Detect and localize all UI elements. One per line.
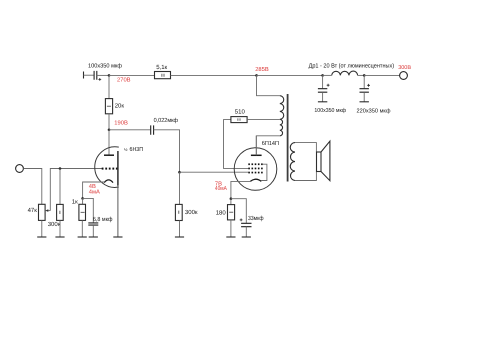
node 270V junction	[108, 74, 111, 77]
node grid V2 junction	[178, 171, 181, 174]
capacitor C5 bottom lead	[363, 92, 365, 102]
tube V2 cathode	[250, 179, 261, 181]
resistor R 510 body	[231, 117, 247, 123]
ground stub R300k-1	[55, 236, 64, 238]
svg-text:5,1к: 5,1к	[156, 64, 167, 71]
node V2 cathode junction	[230, 197, 233, 200]
capacitor C3 6,8мкф plates	[88, 223, 98, 225]
svg-text:300к: 300к	[185, 209, 198, 216]
resistor R 180 body	[228, 205, 235, 220]
ground stub pot	[37, 236, 46, 238]
svg-text:510: 510	[235, 109, 246, 116]
svg-text:100x350 мкф: 100x350 мкф	[88, 62, 122, 69]
speaker BA1 cone	[321, 141, 330, 181]
ground stub R300k-2	[175, 236, 184, 238]
wire R300k-2 to ground	[179, 221, 181, 238]
resistor R 20к body	[105, 99, 112, 114]
ground stub C3	[89, 236, 98, 238]
wire R510 to transformer tap	[247, 119, 280, 121]
svg-text:285В: 285В	[255, 66, 269, 73]
svg-text:33мкф: 33мкф	[248, 215, 264, 222]
svg-text:6,8 мкф: 6,8 мкф	[93, 216, 113, 223]
capacitor C5 bottom stub	[360, 101, 369, 103]
svg-text:20к: 20к	[115, 102, 125, 109]
wire 5.1k to node 285V	[171, 74, 257, 76]
resistor R 1к body	[79, 204, 86, 220]
capacitor C5 plus	[367, 84, 370, 87]
capacitor C6 plus	[240, 219, 243, 222]
capacitor C2 0,022мкф plates	[151, 125, 154, 134]
wire secondary top to speaker	[295, 143, 316, 152]
wire C2 to grid node V2	[154, 130, 180, 172]
tube V1 shield line	[117, 151, 119, 186]
svg-text:6П14П: 6П14П	[262, 140, 279, 147]
wire cathode node to C3	[83, 198, 94, 222]
svg-text:1к: 1к	[72, 198, 78, 205]
svg-text:270В: 270В	[117, 76, 131, 83]
capacitor C1 plus sign	[98, 78, 101, 81]
wire secondary bottom to speaker	[295, 172, 316, 181]
capacitor C4 100х350 lead	[322, 75, 324, 88]
node grid bus junction	[59, 167, 62, 170]
capacitor C4 bottom stub	[318, 101, 327, 103]
wire rail junction to choke	[323, 74, 332, 76]
svg-text:47к: 47к	[28, 207, 38, 214]
wire input to R 47k pot	[23, 169, 41, 205]
resistor R 300к-1 body	[57, 204, 64, 220]
svg-text:0,022мкф: 0,022мкф	[154, 117, 179, 124]
wire node 190V to tube V1 anode	[108, 130, 110, 155]
capacitor C5 220х350 lead	[363, 75, 365, 88]
wire C6 to ground	[245, 227, 247, 237]
wire R1k to ground	[81, 220, 83, 237]
tube V1 6Н3П envelope	[95, 147, 119, 188]
transformer T1 core	[287, 94, 289, 182]
potentiometer R 47к wiper arrow	[47, 210, 50, 212]
transformer T1 secondary winding	[290, 143, 295, 181]
tube V1 grid dots	[102, 168, 118, 170]
wire node270 down to R 20k	[108, 75, 110, 98]
wire stub to C1	[84, 74, 94, 76]
tube V2 grids dots	[248, 163, 262, 173]
svg-text:190В: 190В	[114, 119, 128, 126]
tube V2 anode bar	[251, 154, 262, 156]
wire C3 to ground	[92, 225, 94, 237]
wire 285V down to transformer primary top	[257, 75, 280, 95]
ground stub R180	[226, 236, 235, 238]
capacitor C1 100x350 plates	[94, 71, 97, 80]
svg-text:Др1 - 20 Вт (от люминесцентных: Др1 - 20 Вт (от люминесцентных)	[309, 63, 395, 70]
wire pot to ground	[41, 220, 43, 237]
wire screen grid to R 510	[224, 120, 249, 169]
tube V2 6П14П envelope	[234, 148, 277, 191]
wire 20k to node 190V	[108, 114, 110, 130]
node V1 cathode junction	[81, 197, 84, 200]
wire C1 to node 270V	[97, 74, 109, 76]
wire wiper riser to grid bus	[50, 169, 102, 211]
resistor R 300к-2 body	[175, 204, 182, 220]
output terminal 300V	[400, 72, 408, 80]
capacitor C6 33мкф plates	[241, 223, 251, 226]
wire node to R 180	[230, 199, 232, 205]
svg-text:180: 180	[216, 209, 227, 216]
svg-text:½: ½	[124, 147, 128, 152]
input power stub	[83, 72, 85, 79]
wire R180 to ground	[230, 220, 232, 237]
capacitor C4 plus	[327, 84, 330, 87]
wire rail node270 to R 5.1k	[109, 74, 155, 76]
node 285V junction	[255, 74, 258, 77]
wire C5 junction to output terminal	[364, 74, 399, 76]
capacitor C5 plates	[360, 89, 369, 93]
ground stub C6	[242, 236, 251, 238]
svg-text:300к: 300к	[48, 221, 61, 228]
svg-text:4мА: 4мА	[89, 190, 100, 196]
wire node 190V to C2	[109, 129, 150, 131]
svg-text:40мА: 40мА	[215, 185, 227, 192]
wire grid node down to R 300k-2	[179, 172, 181, 204]
transformer T1 primary winding	[280, 96, 284, 136]
wire choke to cap C5 junction	[358, 74, 365, 76]
svg-text:100х350 мкф: 100х350 мкф	[314, 107, 346, 114]
wire cathode node to C6	[231, 199, 246, 223]
capacitor C4 bottom lead	[322, 92, 324, 102]
wire R300k-1 to ground	[59, 220, 61, 237]
resistor R 5,1к body	[155, 72, 171, 79]
input terminal	[16, 165, 24, 173]
ground stub shield	[113, 236, 122, 238]
node cap C4 junction	[321, 74, 324, 77]
wire rail 285V to cap junction	[257, 74, 323, 76]
capacitor C4 plates	[318, 89, 327, 93]
wire grid node to tube V2 control grid	[180, 171, 249, 173]
svg-text:220х350 мкф: 220х350 мкф	[357, 107, 391, 114]
wire V2 cathode to node	[231, 181, 250, 198]
node cap C5 junction	[363, 74, 366, 77]
tube V1 anode bar	[104, 154, 114, 156]
tube V1 cathode	[104, 180, 113, 183]
svg-text:300В: 300В	[398, 65, 411, 71]
speaker BA1 body	[317, 152, 322, 172]
node 190V junction	[108, 129, 111, 132]
ground stub R1k	[78, 236, 87, 238]
wire V2 anode lead	[255, 136, 257, 156]
svg-text:6Н3П: 6Н3П	[130, 146, 144, 153]
potentiometer R 47к body	[39, 204, 46, 220]
wire suppressor grid to cathode	[261, 164, 267, 180]
wire junction down to R 300k-1	[59, 169, 61, 205]
wire node to R 1k	[82, 198, 84, 204]
choke Dr1 winding	[332, 71, 358, 75]
wire V1 cathode to node	[83, 182, 105, 198]
wire primary bottom to V2 anode	[256, 136, 280, 155]
